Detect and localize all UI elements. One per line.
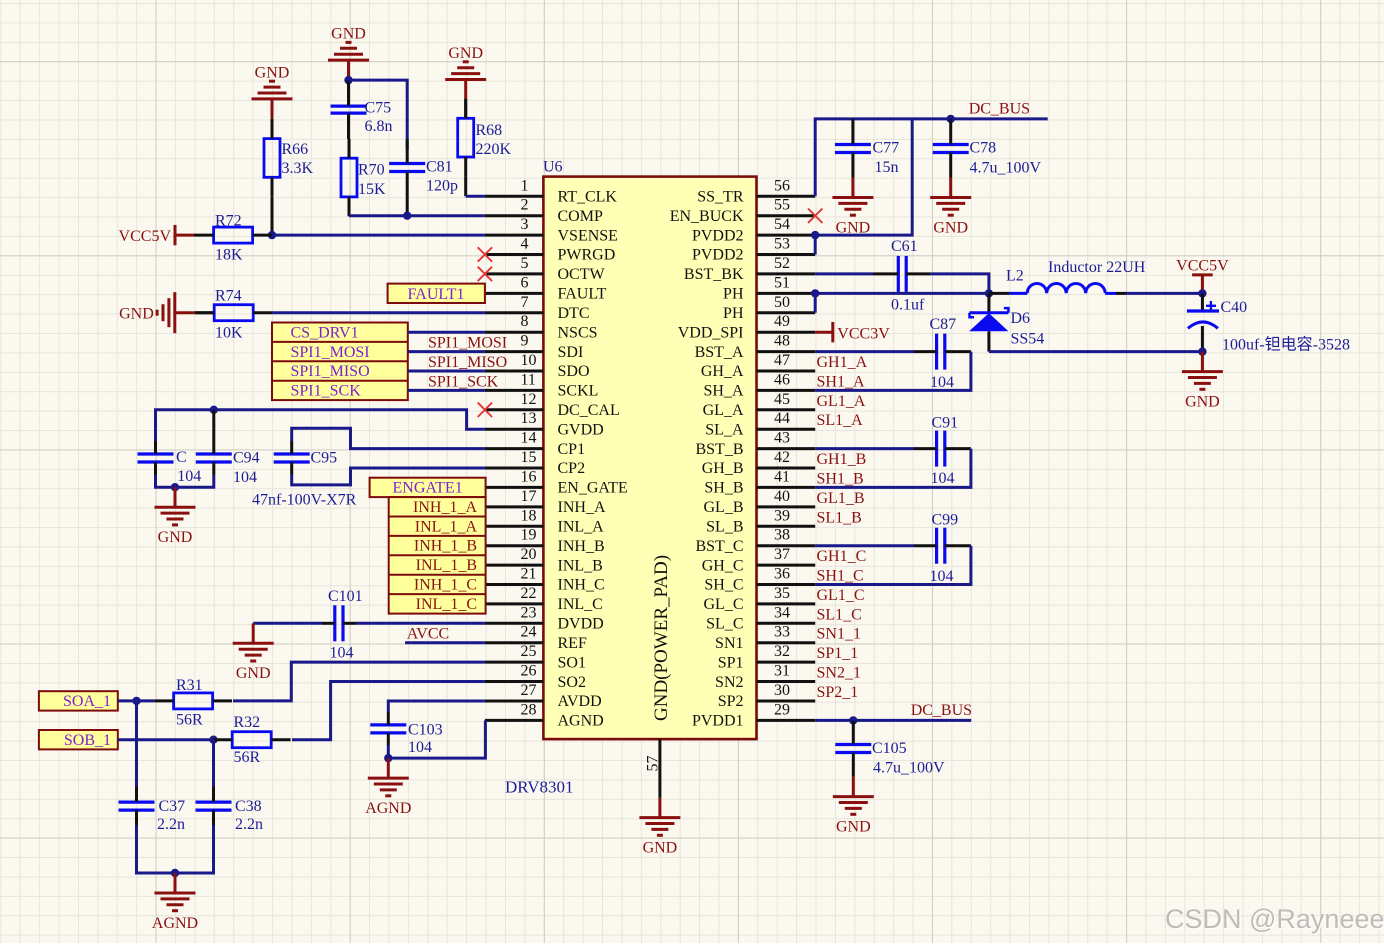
net label AVCC	[407, 626, 449, 643]
pin 45 (GL_A)	[703, 391, 816, 419]
svg-text:SPI1_SCK: SPI1_SCK	[428, 373, 499, 390]
pin 55 (EN_BUCK)	[670, 197, 815, 225]
port ENGATE1	[370, 478, 486, 497]
svg-text:INH_A: INH_A	[558, 499, 606, 516]
power VCC5V	[1176, 257, 1229, 293]
svg-text:C77: C77	[873, 140, 900, 157]
svg-text:24: 24	[521, 624, 537, 641]
svg-text:C103: C103	[408, 722, 443, 739]
svg-text:48: 48	[774, 333, 790, 350]
wire pin8 NSCS	[408, 331, 485, 334]
svg-text:PVDD1: PVDD1	[692, 713, 744, 730]
svg-text:54: 54	[774, 216, 790, 233]
resistor R74	[195, 288, 273, 342]
capacitor C95	[274, 441, 337, 475]
wire pin14 CP1	[292, 428, 485, 448]
svg-text:R66: R66	[282, 141, 309, 158]
capacitor C77	[835, 119, 899, 178]
svg-text:104: 104	[330, 645, 354, 662]
wire pin9 SDI	[408, 350, 485, 353]
svg-text:GH_B: GH_B	[702, 460, 744, 477]
svg-text:C99: C99	[932, 512, 959, 529]
capacitor C101	[322, 588, 363, 662]
net label SP2_1	[817, 684, 859, 701]
wire pins 51-50 tie	[814, 293, 817, 312]
IC U6 (DRV8301) body	[543, 177, 756, 740]
pin 4 (PWRGD)	[485, 236, 615, 264]
svg-text:R32: R32	[234, 714, 261, 731]
svg-text:4.7u_100V: 4.7u_100V	[970, 159, 1042, 176]
pin 20 (INL_B)	[485, 546, 603, 574]
junction	[811, 231, 819, 239]
svg-text:SOB_1: SOB_1	[64, 732, 111, 749]
svg-text:13: 13	[521, 410, 537, 427]
svg-text:BST_B: BST_B	[695, 441, 743, 458]
svg-text:INL_1_C: INL_1_C	[416, 596, 477, 613]
no-ERC marker	[478, 247, 492, 261]
wire DVDD left	[253, 622, 322, 625]
svg-text:DC_BUS: DC_BUS	[911, 702, 972, 719]
wire	[195, 311, 214, 314]
ground	[639, 798, 680, 857]
net label DC_BUS	[969, 101, 1030, 118]
value 47nf-100V-X7R	[252, 492, 357, 509]
svg-text:PVDD2: PVDD2	[692, 227, 744, 244]
svg-text:104: 104	[930, 568, 954, 585]
resistor R68	[458, 99, 512, 176]
svg-text:C78: C78	[970, 140, 997, 157]
pin 47 (GH_A)	[701, 352, 815, 380]
wire SOB to C38	[212, 740, 215, 787]
svg-text:45: 45	[774, 391, 790, 408]
wire SOA_1 to R31	[118, 699, 154, 702]
svg-text:REF: REF	[558, 635, 587, 652]
wire	[348, 197, 351, 216]
svg-text:SP1: SP1	[718, 654, 744, 671]
junction	[268, 231, 276, 239]
svg-text:56: 56	[774, 177, 790, 194]
svg-text:SL_C: SL_C	[706, 616, 743, 633]
ground	[832, 178, 873, 237]
svg-text:0.1uf: 0.1uf	[891, 297, 925, 314]
svg-text:2.2n: 2.2n	[157, 816, 185, 833]
svg-text:SH_C: SH_C	[704, 577, 743, 594]
svg-text:31: 31	[774, 663, 790, 680]
svg-text:51: 51	[774, 274, 790, 291]
wire C87 return to pin46	[815, 352, 971, 391]
pin 27 (AVDD)	[485, 682, 602, 710]
svg-text:SL_B: SL_B	[706, 519, 743, 536]
net label SL1_B	[817, 509, 862, 526]
svg-text:GL_B: GL_B	[704, 499, 744, 516]
resistor R32	[213, 714, 291, 766]
svg-text:EN_BUCK: EN_BUCK	[670, 208, 744, 225]
svg-text:INL_B: INL_B	[558, 557, 603, 574]
net label SN2_1	[817, 665, 861, 682]
svg-text:C95: C95	[311, 450, 338, 467]
net label SL1_A	[817, 412, 864, 429]
svg-text:SH1_C: SH1_C	[817, 568, 864, 585]
inductor L2	[989, 259, 1146, 293]
ground	[328, 26, 369, 81]
wire C99 return to pin36	[815, 546, 971, 585]
svg-text:44: 44	[774, 410, 790, 427]
svg-text:104: 104	[408, 739, 432, 756]
pin 51 (PH)	[723, 274, 815, 302]
svg-text:28: 28	[521, 701, 537, 718]
svg-text:L2: L2	[1006, 268, 1024, 285]
pin 7 (DTC)	[485, 294, 590, 322]
svg-text:CS_DRV1: CS_DRV1	[291, 324, 359, 341]
wire SOB_1 to R32	[118, 738, 213, 741]
svg-text:INL_A: INL_A	[558, 519, 605, 536]
svg-text:2: 2	[521, 197, 529, 214]
svg-text:SDI: SDI	[558, 344, 584, 361]
diode D6 SS54	[969, 293, 1044, 351]
watermark CSDN @Rayneeee	[1165, 904, 1384, 934]
pin 12 (DC_CAL)	[485, 391, 620, 419]
pin 43 (BST_B)	[695, 430, 815, 458]
svg-text:AVDD: AVDD	[558, 693, 602, 710]
resistor R70	[341, 139, 386, 217]
svg-text:SCKL: SCKL	[558, 383, 599, 400]
svg-text:GH1_A: GH1_A	[817, 354, 868, 371]
svg-text:AGND: AGND	[152, 915, 198, 932]
svg-text:1: 1	[521, 177, 529, 194]
no-ERC marker	[478, 267, 492, 281]
svg-text:23: 23	[521, 604, 537, 621]
svg-text:8: 8	[521, 313, 529, 330]
pin 3 (VSENSE)	[485, 216, 618, 244]
svg-text:4.7u_100V: 4.7u_100V	[873, 760, 945, 777]
port INH/INL group	[389, 497, 486, 613]
svg-text:56R: 56R	[234, 749, 261, 766]
svg-text:GH_A: GH_A	[701, 363, 744, 380]
svg-text:2.2n: 2.2n	[235, 816, 263, 833]
svg-text:PWRGD: PWRGD	[558, 247, 616, 264]
svg-text:VCC5V: VCC5V	[119, 228, 172, 245]
pin 22 (INL_C)	[485, 585, 603, 613]
wire	[271, 119, 274, 139]
svg-text:C38: C38	[235, 798, 262, 815]
wire pin7 DTC	[273, 311, 485, 314]
svg-text:SL1_A: SL1_A	[817, 412, 864, 429]
svg-text:AVCC: AVCC	[407, 626, 449, 643]
wire pin3 VSENSE	[272, 234, 485, 237]
svg-text:22: 22	[521, 585, 537, 602]
svg-text:R31: R31	[176, 677, 203, 694]
svg-text:57: 57	[645, 756, 662, 772]
junction	[209, 736, 217, 744]
ground	[1182, 352, 1223, 411]
svg-text:26: 26	[521, 663, 537, 680]
svg-text:220K: 220K	[476, 141, 512, 158]
wire pin23 DVDD	[356, 622, 485, 625]
svg-text:PH: PH	[723, 286, 744, 303]
capacitor C91	[914, 415, 971, 488]
wire pins 54-53 tie	[814, 235, 817, 254]
junction	[811, 289, 819, 297]
svg-text:GND: GND	[933, 219, 968, 236]
port CS_DRV1 / SPI1 group	[272, 323, 408, 401]
svg-text:29: 29	[774, 701, 790, 718]
svg-text:120p: 120p	[426, 178, 458, 195]
wire pin38	[815, 544, 914, 547]
junction	[849, 716, 857, 724]
svg-text:VSENSE: VSENSE	[558, 227, 618, 244]
junction	[171, 869, 179, 877]
svg-text:19: 19	[521, 527, 537, 544]
svg-text:SH_A: SH_A	[703, 383, 743, 400]
port SOB_1	[39, 730, 118, 749]
pin 6 (FAULT)	[485, 274, 607, 302]
svg-text:SN1_1: SN1_1	[817, 626, 861, 643]
net label GH1_A	[817, 354, 868, 371]
svg-text:GND: GND	[643, 839, 678, 856]
pin 36 (SH_C)	[704, 566, 815, 594]
svg-text:GND: GND	[836, 818, 871, 835]
pin 33 (SN1)	[715, 624, 815, 652]
power VCC3V	[815, 322, 890, 343]
svg-text:GL_C: GL_C	[704, 596, 744, 613]
pin 15 (CP2)	[485, 449, 585, 477]
svg-text:6.8n: 6.8n	[365, 118, 393, 135]
wire pin24 REF	[405, 641, 485, 644]
svg-text:47nf-100V-X7R: 47nf-100V-X7R	[252, 492, 357, 509]
pin 48 (BST_A)	[695, 333, 816, 361]
svg-text:FAULT1: FAULT1	[408, 286, 465, 303]
svg-text:GND: GND	[448, 45, 483, 62]
svg-text:AGND: AGND	[558, 713, 604, 730]
pin 21 (INH_C)	[485, 566, 605, 594]
svg-text:46: 46	[774, 371, 790, 388]
pin 16 (EN_GATE)	[485, 468, 628, 496]
pin 53 (PVDD2)	[692, 236, 815, 264]
junction	[210, 406, 218, 414]
svg-text:SDO: SDO	[558, 363, 590, 380]
wire C103 bottom	[387, 745, 390, 758]
svg-text:50: 50	[774, 294, 790, 311]
svg-text:C91: C91	[932, 415, 959, 432]
wire	[271, 197, 274, 235]
svg-text:SH1_A: SH1_A	[817, 373, 865, 390]
pin 44 (SL_A)	[705, 410, 815, 438]
pin 24 (REF)	[485, 624, 587, 652]
pin 46 (SH_A)	[703, 371, 815, 399]
net label SH1_A	[817, 373, 865, 390]
net label GL1_C	[817, 587, 865, 604]
wire pin48	[815, 350, 914, 353]
pin 49 (VDD_SPI)	[678, 313, 815, 341]
svg-text:39: 39	[774, 507, 790, 524]
svg-text:14: 14	[521, 430, 537, 447]
net label DC_BUS	[911, 702, 972, 719]
svg-text:C37: C37	[159, 798, 186, 815]
svg-text:104: 104	[177, 468, 201, 485]
svg-text:COMP: COMP	[558, 208, 603, 225]
capacitor C38	[196, 787, 264, 833]
svg-text:DC_BUS: DC_BUS	[969, 101, 1030, 118]
svg-text:GL1_A: GL1_A	[817, 393, 866, 410]
svg-text:32: 32	[774, 643, 790, 660]
pin 52 (BST_BK)	[684, 255, 815, 283]
svg-text:SL_A: SL_A	[705, 421, 744, 438]
svg-text:RT_CLK: RT_CLK	[558, 189, 618, 206]
net label GL1_B	[817, 490, 865, 507]
pin 30 (SP2)	[718, 682, 815, 710]
pin 8 (NSCS)	[485, 313, 598, 341]
svg-text:42: 42	[774, 449, 790, 466]
wire pin2 COMP	[349, 214, 485, 217]
svg-text:SOA_1: SOA_1	[63, 693, 111, 710]
junction	[344, 76, 352, 84]
wire pin26 SO2	[292, 682, 485, 740]
svg-text:6: 6	[521, 274, 529, 291]
junction	[384, 754, 392, 762]
wire L2 to VCC5V	[1126, 292, 1202, 295]
svg-text:C81: C81	[426, 159, 453, 176]
svg-text:SN2: SN2	[715, 674, 743, 691]
svg-text:PVDD2: PVDD2	[692, 247, 744, 264]
svg-text:C101: C101	[328, 588, 363, 605]
port FAULT1	[388, 284, 485, 303]
power VCC5V	[119, 225, 195, 245]
svg-text:FAULT: FAULT	[558, 286, 607, 303]
no-ERC marker	[808, 209, 822, 223]
pin 25 (SO1)	[485, 643, 586, 671]
svg-text:CP1: CP1	[558, 441, 586, 458]
wire pin29 PVDD1 DC_BUS	[815, 719, 971, 722]
svg-text:21: 21	[521, 566, 537, 583]
net label GL1_A	[817, 393, 866, 410]
svg-text:INH_B: INH_B	[558, 538, 605, 555]
svg-text:5: 5	[521, 255, 529, 272]
net label SH1_C	[817, 568, 864, 585]
capacitor C105	[835, 720, 945, 776]
svg-text:SS54: SS54	[1011, 331, 1045, 348]
svg-text:C: C	[176, 449, 187, 466]
svg-text:SO2: SO2	[558, 674, 586, 691]
wire pin28 AGND	[388, 720, 485, 758]
svg-text:SN2_1: SN2_1	[817, 665, 861, 682]
pin 11 (SCKL)	[485, 371, 599, 399]
wire SOA to C37	[135, 701, 138, 787]
svg-text:35: 35	[774, 585, 790, 602]
resistor R66	[264, 119, 314, 197]
net label SH1_B	[817, 470, 864, 487]
svg-text:OCTW: OCTW	[558, 266, 606, 283]
capacitor C103	[370, 712, 442, 756]
pin 37 (GH_C)	[702, 546, 815, 574]
junction	[1198, 347, 1206, 355]
svg-text:100uf-钽电容-3528: 100uf-钽电容-3528	[1222, 336, 1350, 354]
pin 29 (PVDD1)	[692, 701, 815, 729]
pin 42 (GH_B)	[702, 449, 815, 477]
svg-text:CSDN @Rayneeee: CSDN @Rayneeee	[1165, 904, 1384, 934]
junction	[947, 115, 955, 123]
capacitor C61	[873, 238, 930, 314]
ground	[365, 758, 411, 817]
svg-text:C75: C75	[365, 100, 392, 117]
svg-text:SH1_B: SH1_B	[817, 470, 864, 487]
net label SL1_C	[817, 606, 862, 623]
ground	[930, 178, 971, 237]
svg-text:GND: GND	[119, 306, 154, 323]
svg-text:C87: C87	[930, 316, 957, 333]
svg-text:GH1_C: GH1_C	[817, 548, 867, 565]
svg-text:ENGATE1: ENGATE1	[392, 479, 462, 496]
value DRV8301	[505, 778, 574, 797]
svg-text:INL_C: INL_C	[558, 596, 603, 613]
svg-text:49: 49	[774, 313, 790, 330]
pin 17 (INH_A)	[485, 488, 606, 516]
junction	[403, 212, 411, 220]
svg-text:DC_CAL: DC_CAL	[558, 402, 620, 419]
svg-text:R68: R68	[476, 122, 503, 139]
svg-text:104: 104	[931, 470, 955, 487]
wire D6 to C40 bottom	[989, 350, 1203, 353]
wire pin52 BST_BK	[815, 272, 873, 275]
wire pin51 PH	[815, 292, 989, 295]
svg-text:GL_A: GL_A	[703, 402, 744, 419]
svg-text:BST_A: BST_A	[695, 344, 744, 361]
svg-text:GND: GND	[236, 665, 271, 682]
svg-text:GND: GND	[255, 64, 290, 81]
pin 2 (COMP)	[485, 197, 603, 225]
capacitor C	[138, 441, 202, 485]
svg-text:DVDD: DVDD	[558, 616, 604, 633]
value 100uf tantalum 3528	[1222, 336, 1350, 354]
designator U6	[543, 159, 563, 176]
svg-text:INL_1_A: INL_1_A	[415, 518, 478, 535]
svg-text:37: 37	[774, 546, 790, 563]
ground	[155, 487, 196, 546]
svg-text:20: 20	[521, 546, 537, 563]
net label GH1_B	[817, 451, 867, 468]
resistor R31	[154, 677, 232, 729]
capacitor C75	[331, 80, 393, 139]
pin 54 (PVDD2)	[692, 216, 815, 244]
pin 14 (CP1)	[485, 430, 585, 458]
svg-text:CP2: CP2	[558, 460, 586, 477]
pin 57 (GND pad)	[645, 739, 662, 798]
wire C37/C38 to AGND rail	[137, 825, 214, 873]
pin 41 (SH_B)	[704, 468, 815, 496]
wire C81 top rail	[349, 80, 408, 150]
svg-text:SS_TR: SS_TR	[697, 189, 744, 206]
capacitor C78	[933, 119, 1042, 178]
pin 40 (GL_B)	[704, 488, 816, 516]
svg-text:SO1: SO1	[558, 654, 586, 671]
junction	[132, 697, 140, 705]
ground	[252, 64, 293, 119]
svg-text:11: 11	[521, 371, 536, 388]
ground	[445, 45, 486, 100]
svg-text:15n: 15n	[875, 159, 899, 176]
svg-text:INH_1_B: INH_1_B	[414, 538, 477, 555]
svg-text:17: 17	[521, 488, 537, 505]
svg-text:12: 12	[521, 391, 537, 408]
capacitor C99	[914, 512, 971, 586]
svg-text:33: 33	[774, 624, 790, 641]
capacitor C37	[119, 787, 186, 833]
svg-text:BST_BK: BST_BK	[684, 266, 744, 283]
junction	[171, 483, 179, 491]
pin 13 (GVDD)	[485, 410, 604, 438]
svg-text:SPI1_MOSI: SPI1_MOSI	[428, 335, 507, 352]
svg-text:R70: R70	[358, 162, 385, 179]
net label SP1_1	[817, 645, 859, 662]
